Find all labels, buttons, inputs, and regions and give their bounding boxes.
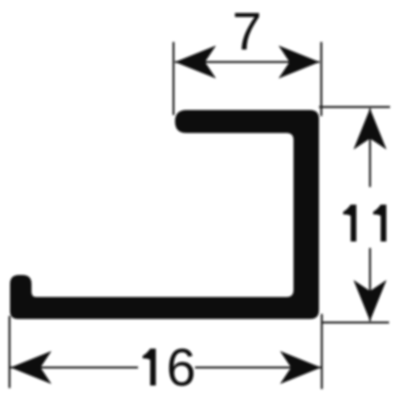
dimension 11: bottom extension line [321, 322, 389, 324]
dimension 7: right extension line [320, 42, 322, 116]
dimension 7: dimension line [175, 61, 320, 63]
dimension 16: left arrowhead [11, 351, 52, 384]
dimension 7: left extension line [173, 42, 175, 115]
dimension 11: up arrowhead [354, 109, 387, 150]
dimension 11: down arrowhead [354, 280, 387, 321]
dimension 16: left extension line [9, 316, 11, 388]
profile cross-section outline [10, 110, 319, 319]
svg-text:6: 6 [166, 339, 195, 398]
dimension 7: right arrowhead [279, 46, 320, 79]
dimension 11: value label [343, 205, 386, 242]
dimension 16: right arrowhead [280, 351, 321, 384]
dimension 11: top extension line [319, 106, 390, 108]
dimension 16: dimension line right segment [195, 367, 321, 369]
dimension 11: dimension line upper segment [369, 109, 371, 188]
svg-text:7: 7 [232, 3, 261, 62]
dimension 16: right extension line [321, 314, 323, 389]
dimension 16: dimension line left segment [11, 367, 139, 369]
dimension 7: left arrowhead [175, 46, 216, 79]
dimension 16: value label [143, 339, 196, 398]
dimension 11: dimension line lower segment [369, 248, 371, 321]
dimension 7: value label [232, 3, 261, 62]
